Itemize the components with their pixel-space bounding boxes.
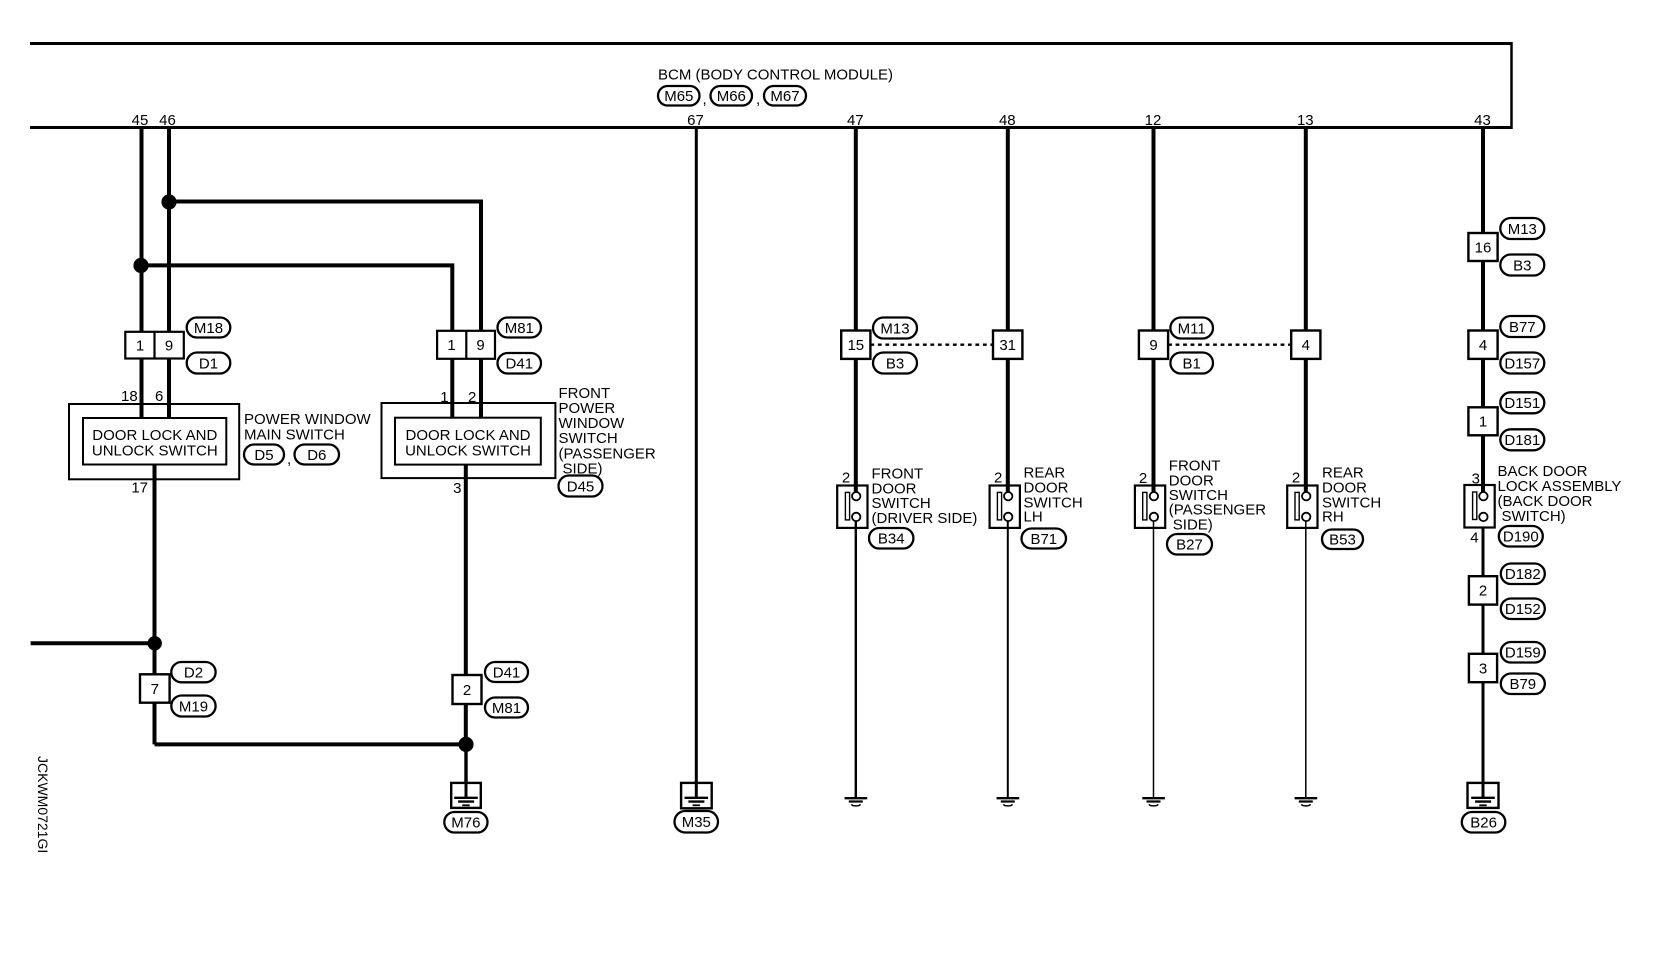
svg-text:BCM (BODY CONTROL MODULE): BCM (BODY CONTROL MODULE) — [658, 67, 893, 84]
svg-text:3: 3 — [1479, 660, 1487, 677]
svg-text:D159: D159 — [1505, 645, 1541, 662]
svg-text:2: 2 — [842, 469, 850, 486]
svg-text:13: 13 — [1297, 112, 1314, 129]
svg-text:M11: M11 — [1178, 320, 1206, 337]
svg-text:UNLOCK SWITCH: UNLOCK SWITCH — [405, 442, 531, 459]
svg-text:67: 67 — [687, 112, 704, 129]
svg-text:M76: M76 — [451, 815, 480, 832]
svg-text:B77: B77 — [1509, 319, 1536, 336]
svg-text:M18: M18 — [194, 320, 223, 337]
svg-text:46: 46 — [159, 112, 176, 129]
svg-text:15: 15 — [847, 337, 864, 354]
svg-text:17: 17 — [131, 480, 148, 497]
svg-text:D5: D5 — [254, 447, 273, 464]
svg-text:2: 2 — [1479, 583, 1487, 600]
svg-text:B3: B3 — [1513, 257, 1531, 274]
svg-text:18: 18 — [121, 388, 138, 405]
svg-text:48: 48 — [999, 112, 1016, 129]
svg-text:9: 9 — [1149, 337, 1157, 354]
svg-text:43: 43 — [1474, 112, 1491, 129]
svg-text:,: , — [287, 451, 291, 468]
svg-text:2: 2 — [463, 682, 471, 699]
svg-text:SIDE): SIDE) — [563, 460, 603, 477]
svg-text:7: 7 — [151, 681, 159, 698]
svg-text:4: 4 — [1479, 337, 1487, 354]
svg-text:3: 3 — [453, 480, 461, 497]
svg-text:RH: RH — [1322, 509, 1344, 526]
svg-text:3: 3 — [1472, 471, 1480, 488]
svg-text:M81: M81 — [505, 320, 534, 337]
svg-text:M66: M66 — [717, 88, 746, 105]
svg-text:16: 16 — [1475, 239, 1492, 256]
svg-text:6: 6 — [155, 388, 163, 405]
svg-text:1: 1 — [136, 337, 144, 354]
svg-text:M19: M19 — [179, 698, 208, 715]
svg-text:2: 2 — [468, 389, 476, 406]
svg-text:1: 1 — [447, 337, 455, 354]
svg-text:D190: D190 — [1503, 529, 1539, 546]
svg-text:9: 9 — [476, 337, 484, 354]
svg-text:2: 2 — [1292, 469, 1300, 486]
svg-text:D2: D2 — [184, 665, 203, 682]
svg-text:JCKWM0721GI: JCKWM0721GI — [35, 756, 51, 853]
svg-text:B27: B27 — [1176, 537, 1203, 554]
svg-text:9: 9 — [165, 337, 173, 354]
svg-text:D152: D152 — [1505, 601, 1541, 618]
svg-text:1: 1 — [440, 389, 448, 406]
svg-text:4: 4 — [1302, 337, 1310, 354]
svg-text:D151: D151 — [1504, 395, 1540, 412]
svg-text:(DRIVER SIDE): (DRIVER SIDE) — [872, 510, 978, 527]
svg-text:M81: M81 — [492, 700, 521, 717]
svg-text:,: , — [756, 91, 760, 108]
svg-text:SIDE): SIDE) — [1173, 516, 1213, 533]
svg-text:M13: M13 — [880, 320, 909, 337]
svg-text:D41: D41 — [493, 664, 521, 681]
svg-text:B53: B53 — [1329, 532, 1356, 549]
svg-text:B71: B71 — [1030, 531, 1057, 548]
svg-text:2: 2 — [1139, 470, 1147, 487]
svg-text:D182: D182 — [1505, 566, 1541, 583]
svg-text:SWITCH): SWITCH) — [1502, 508, 1566, 525]
svg-text:D45: D45 — [567, 478, 595, 495]
svg-text:47: 47 — [847, 112, 864, 129]
svg-text:12: 12 — [1145, 112, 1162, 129]
svg-text:,: , — [703, 91, 707, 108]
svg-text:D1: D1 — [199, 355, 218, 372]
svg-text:MAIN SWITCH: MAIN SWITCH — [244, 426, 345, 443]
svg-text:M35: M35 — [682, 814, 711, 831]
svg-text:B3: B3 — [886, 356, 904, 373]
svg-text:B1: B1 — [1183, 355, 1201, 372]
svg-text:B79: B79 — [1509, 676, 1536, 693]
svg-text:UNLOCK SWITCH: UNLOCK SWITCH — [92, 442, 218, 459]
svg-text:45: 45 — [132, 112, 149, 129]
svg-text:D41: D41 — [506, 356, 534, 373]
svg-text:B26: B26 — [1470, 815, 1497, 832]
svg-text:4: 4 — [1470, 530, 1478, 547]
svg-text:D6: D6 — [307, 447, 326, 464]
svg-text:31: 31 — [999, 337, 1016, 354]
svg-text:D157: D157 — [1504, 355, 1540, 372]
svg-text:LH: LH — [1024, 509, 1043, 526]
svg-text:1: 1 — [1479, 414, 1487, 431]
svg-text:B34: B34 — [878, 531, 905, 548]
svg-text:2: 2 — [994, 469, 1002, 486]
svg-text:M65: M65 — [664, 88, 693, 105]
svg-text:M67: M67 — [770, 88, 799, 105]
svg-text:D181: D181 — [1504, 432, 1540, 449]
svg-text:M13: M13 — [1508, 221, 1537, 238]
